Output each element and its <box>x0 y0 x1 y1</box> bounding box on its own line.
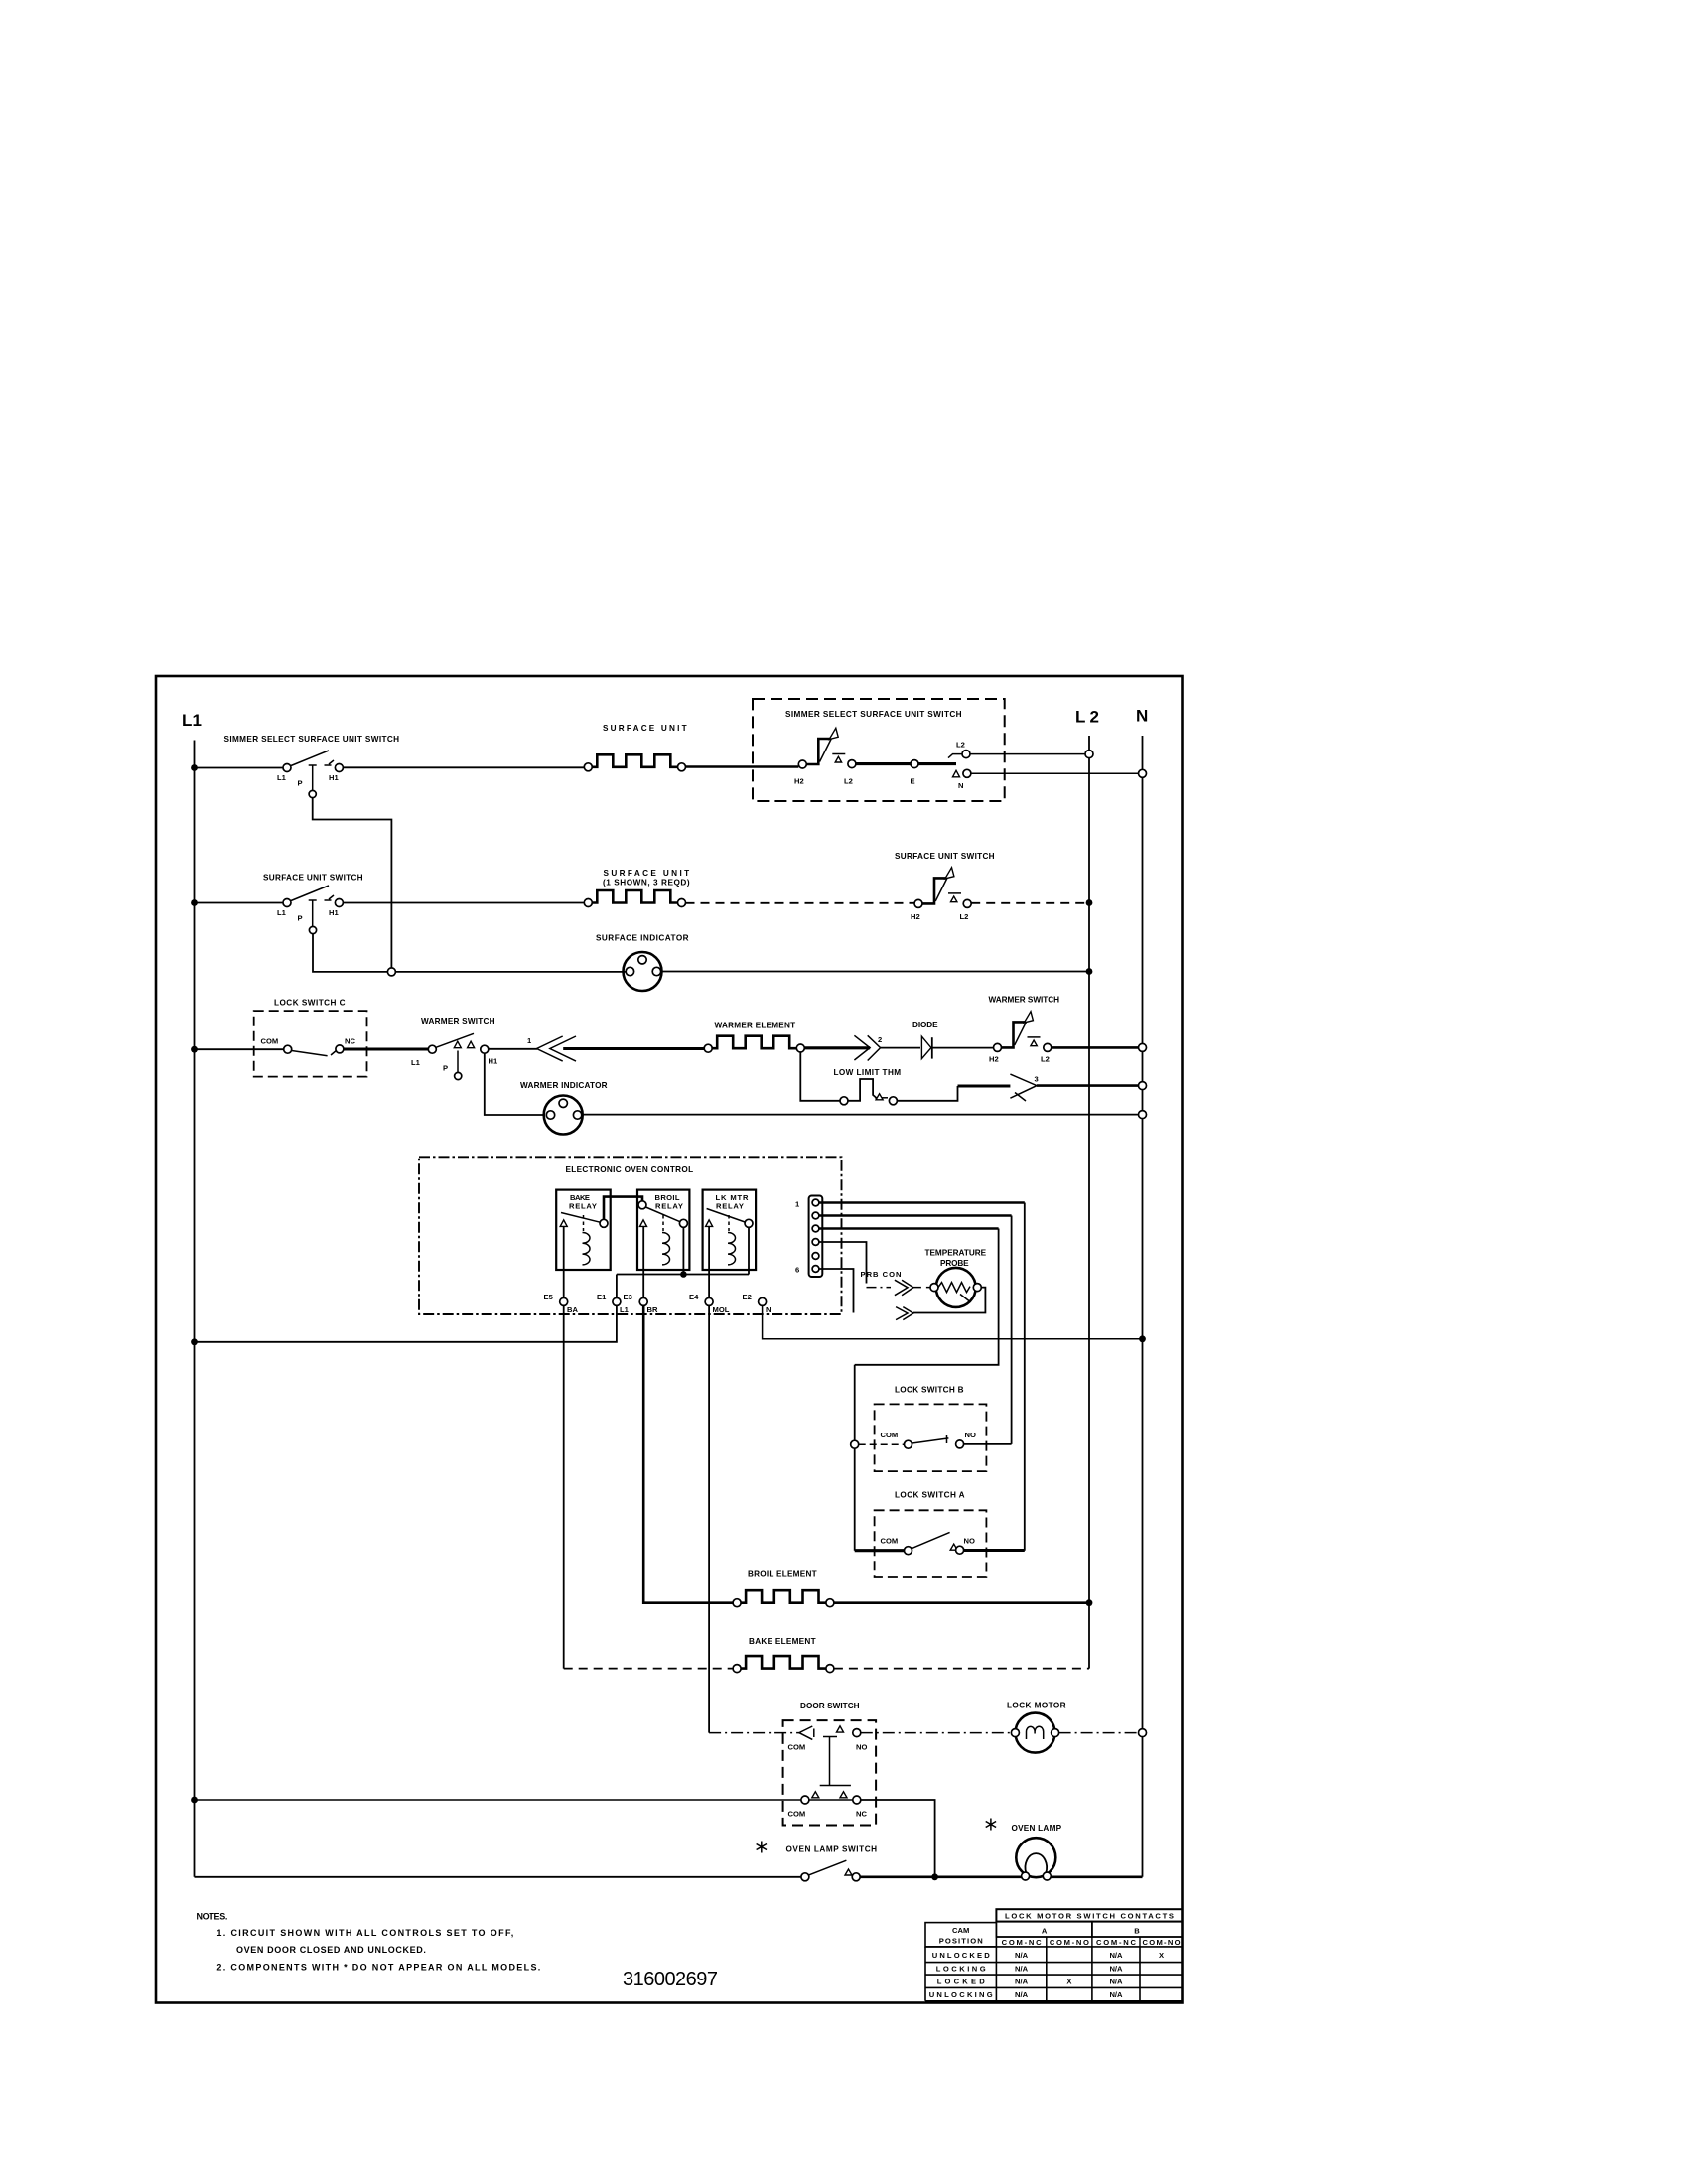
lamp oven lamp <box>1012 1824 1062 1880</box>
wire lock motor to N bus (dash-dot) <box>1059 1732 1143 1734</box>
probe connector row dash-dot <box>867 1287 892 1289</box>
wire junction to COM lock B <box>859 1443 905 1445</box>
terminal E2 <box>743 1293 772 1314</box>
node L1 label <box>182 711 204 730</box>
svg-text:LOCK MOTOR SWITCH CONTACTS: LOCK MOTOR SWITCH CONTACTS <box>1005 1912 1174 1921</box>
wire E segment <box>856 762 911 765</box>
svg-text:COM: COM <box>261 1037 279 1046</box>
wire L2 bus <box>1088 736 1090 1669</box>
svg-text:E2: E2 <box>743 1293 752 1301</box>
wire lock B left down to lock A <box>854 1448 856 1551</box>
svg-text:L 1: L 1 <box>182 711 204 730</box>
terminal E1 <box>597 1293 630 1314</box>
junction on L2 bus indicator row <box>1086 968 1093 975</box>
svg-text:L1: L1 <box>277 908 287 917</box>
wire chevron3 to N bus <box>1037 1084 1143 1087</box>
svg-text:UNLOCKING: UNLOCKING <box>929 1990 993 1999</box>
svg-text:H1: H1 <box>489 1057 498 1066</box>
wire pin1 to lock switch A NO <box>819 1203 1025 1551</box>
svg-text:P: P <box>298 779 303 788</box>
svg-text:N/A: N/A <box>1015 1990 1029 1999</box>
dashed box simmer select surface unit switch <box>753 699 1005 801</box>
svg-text:N/A: N/A <box>1015 1978 1029 1986</box>
svg-text:LOW LIMIT THM: LOW LIMIT THM <box>834 1068 902 1077</box>
junction L1 row2 <box>191 899 198 906</box>
wire H1 to chevron <box>489 1048 537 1050</box>
svg-text:N/A: N/A <box>1109 1978 1123 1986</box>
svg-text:L1: L1 <box>620 1305 630 1314</box>
svg-text:2: 2 <box>878 1035 882 1044</box>
svg-text:H1: H1 <box>329 773 339 782</box>
dashed box lock switch C <box>254 999 367 1077</box>
junction door-NC / lamp row <box>931 1873 938 1880</box>
wire E1 to L1 bus <box>195 1305 617 1341</box>
svg-text:SURFACE INDICATOR: SURFACE INDICATOR <box>596 934 689 943</box>
svg-text:P: P <box>298 914 303 923</box>
relay broil relay U2 <box>637 1190 689 1298</box>
junction L1 E1 row <box>191 1338 198 1345</box>
svg-text:COM: COM <box>881 1537 899 1546</box>
wire L2-contact to L2 bus <box>970 753 1089 755</box>
wire oven lamp switch to lamp <box>860 1876 1021 1879</box>
table lock motor switch contacts <box>925 1909 1183 2001</box>
svg-text:NC: NC <box>345 1037 355 1046</box>
wire N-contact to N bus <box>971 772 1143 774</box>
resistor surface unit (1 shown 3 reqd) <box>584 869 690 907</box>
svg-text:DIODE: DIODE <box>912 1021 938 1029</box>
svg-text:RELAY: RELAY <box>655 1201 683 1210</box>
svg-text:6: 6 <box>795 1266 799 1275</box>
wire H1 down to warmer indicator <box>485 1053 544 1115</box>
wire N bus <box>1142 736 1144 1877</box>
thermistor temperature probe <box>925 1249 987 1307</box>
wire lock A NO to pin1 vertical <box>964 1549 1025 1552</box>
svg-text:N: N <box>958 781 963 790</box>
svg-text:BAKE ELEMENT: BAKE ELEMENT <box>749 1637 816 1646</box>
svg-text:1. CIRCUIT SHOWN WITH ALL CONT: 1. CIRCUIT SHOWN WITH ALL CONTROLS SET T… <box>216 1928 514 1938</box>
svg-text:LOCK SWITCH B: LOCK SWITCH B <box>895 1386 964 1395</box>
wire chevron to probe left <box>913 1287 930 1289</box>
svg-text:SIMMER SELECT SURFACE UNIT SWI: SIMMER SELECT SURFACE UNIT SWITCH <box>785 710 962 719</box>
svg-text:L2: L2 <box>956 741 965 750</box>
wire bake element to L2 bus elbow (dashed) <box>834 1668 1089 1670</box>
switch lock switch C <box>261 1037 356 1056</box>
wire E2 to N bus <box>763 1305 1143 1338</box>
motor lock motor <box>1007 1702 1066 1753</box>
svg-text:UNLOCKED: UNLOCKED <box>932 1951 991 1960</box>
svg-text:X: X <box>1066 1978 1071 1986</box>
lamp warmer indicator <box>520 1081 608 1135</box>
wire pin3 to lock switch B COM <box>819 1229 999 1441</box>
wire E4 to door switch (dash-dot) <box>709 1305 799 1732</box>
wire chevron2 to diode <box>881 1047 920 1049</box>
connector chevrons probe return <box>896 1307 913 1320</box>
svg-text:N/A: N/A <box>1015 1965 1029 1974</box>
svg-text:WARMER INDICATOR: WARMER INDICATOR <box>520 1081 608 1090</box>
svg-text:OVEN LAMP SWITCH: OVEN LAMP SWITCH <box>786 1845 878 1854</box>
resistor warmer element <box>704 1022 796 1053</box>
svg-text:L 2: L 2 <box>1075 708 1101 727</box>
junction L1 door row <box>191 1797 198 1804</box>
svg-text:COM: COM <box>788 1810 806 1819</box>
node junction circle P-row <box>387 968 395 976</box>
svg-text:L2: L2 <box>1041 1055 1050 1064</box>
svg-text:SURFACE UNIT: SURFACE UNIT <box>603 724 687 733</box>
svg-text:CAM: CAM <box>952 1926 969 1935</box>
mechanical link door switch <box>820 1737 851 1786</box>
asterisk oven lamp switch <box>757 1842 767 1853</box>
wire chevron to warmer element <box>563 1047 704 1050</box>
svg-text:TEMPERATURE: TEMPERATURE <box>925 1249 987 1258</box>
junction N bus E2 row <box>1139 1335 1146 1342</box>
thermostat low limit thm <box>834 1068 902 1105</box>
wire pin2 to lock switch B NO <box>819 1216 1012 1444</box>
svg-text:LOCK MOTOR: LOCK MOTOR <box>1007 1702 1066 1710</box>
wire row1 to H2 <box>686 765 799 768</box>
diode <box>912 1021 938 1059</box>
svg-text:N: N <box>766 1305 771 1314</box>
svg-text:SURFACE UNIT SWITCH: SURFACE UNIT SWITCH <box>263 874 363 883</box>
switch warmer switch (left) <box>411 1017 498 1080</box>
terminal E4 <box>689 1293 730 1314</box>
node junction circle lock B left <box>851 1440 859 1448</box>
svg-text:OVEN DOOR CLOSED AND UNLOCKED.: OVEN DOOR CLOSED AND UNLOCKED. <box>236 1945 427 1955</box>
table text <box>929 1912 1181 1999</box>
svg-text:N/A: N/A <box>1109 1965 1123 1974</box>
switch door switch lower pole <box>788 1792 868 1819</box>
connector chevrons PRB CON <box>861 1270 913 1296</box>
svg-text:3: 3 <box>1035 1075 1039 1084</box>
svg-text:A: A <box>1042 1927 1048 1936</box>
junction L1 warmer row <box>191 1046 198 1053</box>
connector chevron 2 <box>854 1035 882 1061</box>
svg-text:ELECTRONIC OVEN CONTROL: ELECTRONIC OVEN CONTROL <box>566 1165 694 1174</box>
wire row2 mid <box>343 902 584 904</box>
switch line selector L2/N <box>918 741 971 791</box>
svg-text:NO: NO <box>964 1537 975 1546</box>
wire row2 left <box>195 902 284 904</box>
node E terminal <box>911 760 919 786</box>
switch door switch upper pole <box>788 1726 868 1752</box>
node circle on N bus thm row <box>1139 1082 1147 1090</box>
node junction circle warmer element out <box>796 1044 804 1052</box>
dashed box lock switch A <box>875 1490 987 1577</box>
svg-text:P: P <box>443 1064 448 1073</box>
svg-text:WARMER SWITCH: WARMER SWITCH <box>421 1017 495 1025</box>
wire E5 to bake element (dashed) <box>564 1305 733 1668</box>
svg-text:NOTES.: NOTES. <box>197 1912 229 1922</box>
asterisk oven lamp <box>986 1819 996 1831</box>
switch surface unit switch (left) <box>263 874 363 934</box>
wire broil relay armature to E1, lk mtr armature join <box>617 1227 749 1297</box>
dashed box door switch <box>783 1702 877 1826</box>
svg-text:E1: E1 <box>597 1293 607 1301</box>
svg-text:OVEN LAMP: OVEN LAMP <box>1012 1824 1062 1833</box>
wire L1 bus elbow to oven lamp switch <box>195 1876 801 1878</box>
wire probe return loop <box>913 1288 985 1313</box>
lamp surface indicator <box>596 934 689 992</box>
svg-text:L1: L1 <box>277 773 287 782</box>
connector chevron 3 <box>1010 1074 1038 1101</box>
wire diode to H2 <box>932 1047 994 1049</box>
wire row1 left <box>195 767 284 769</box>
svg-text:LOCK SWITCH C: LOCK SWITCH C <box>274 999 346 1008</box>
wire warmer switch to N bus <box>1052 1046 1143 1049</box>
wire lamp to N bus corner <box>1051 1876 1142 1879</box>
junction L1 row1 <box>191 764 198 771</box>
wire broil element to L2 bus <box>834 1601 1089 1604</box>
wire to lock switch C <box>195 1048 284 1050</box>
connector strip EOC pins <box>795 1196 822 1278</box>
svg-text:BA: BA <box>567 1305 578 1314</box>
svg-text:PRB CON: PRB CON <box>861 1270 902 1279</box>
switch lock switch B <box>881 1431 976 1448</box>
wire door NO to lock motor (dash-dot) <box>861 1732 1012 1734</box>
wire low limit to chevron 3 <box>897 1086 1010 1101</box>
wire door NC down to lamp row <box>861 1800 935 1877</box>
svg-text:N: N <box>1136 707 1150 726</box>
svg-text:316002697: 316002697 <box>623 1969 719 1990</box>
node circle on L2 bus row1 <box>1085 751 1093 758</box>
svg-text:(1 SHOWN, 3 REQD): (1 SHOWN, 3 REQD) <box>603 879 690 887</box>
svg-text:BR: BR <box>647 1305 658 1314</box>
switch simmer select (right, infinite switch) <box>794 728 856 785</box>
svg-text:2. COMPONENTS WITH * DO NOT AP: 2. COMPONENTS WITH * DO NOT APPEAR ON AL… <box>216 1963 541 1973</box>
wire pin4 to probe connector <box>819 1242 867 1284</box>
wire lock B NO to pin2 vertical <box>964 1443 1012 1445</box>
junction on L2 bus row2 <box>1086 899 1093 906</box>
svg-text:H2: H2 <box>911 912 920 921</box>
svg-text:N/A: N/A <box>1109 1990 1123 1999</box>
svg-text:N/A: N/A <box>1015 1951 1029 1960</box>
wire pin6 to probe return <box>819 1269 854 1313</box>
switch oven lamp switch <box>786 1845 878 1881</box>
wire L1 bus <box>194 741 196 1877</box>
svg-text:NC: NC <box>856 1810 867 1819</box>
svg-text:DOOR SWITCH: DOOR SWITCH <box>800 1702 860 1710</box>
wire warmer indicator to N bus <box>582 1114 1143 1116</box>
svg-text:NO: NO <box>965 1431 976 1439</box>
resistor broil element <box>733 1570 834 1607</box>
svg-text:COM: COM <box>788 1743 806 1752</box>
svg-text:LOCK SWITCH A: LOCK SWITCH A <box>895 1490 965 1499</box>
wire NC to warmer switch <box>344 1047 428 1050</box>
svg-text:WARMER ELEMENT: WARMER ELEMENT <box>715 1022 796 1030</box>
svg-text:B: B <box>1134 1927 1140 1936</box>
wire L1 bus to door COM lower <box>195 1799 801 1801</box>
wire bake relay to broil relay top <box>604 1197 642 1220</box>
wire indicator to L2 bus <box>661 971 1089 973</box>
node circle on N bus lock motor row <box>1139 1729 1147 1737</box>
relay bake relay U1 <box>556 1190 611 1298</box>
svg-text:H2: H2 <box>989 1055 999 1064</box>
svg-text:H1: H1 <box>329 908 339 917</box>
svg-text:WARMER SWITCH: WARMER SWITCH <box>989 996 1060 1005</box>
switch warmer switch (right, infinite switch) <box>989 996 1060 1064</box>
node N label <box>1136 707 1150 726</box>
wire row2 dashed to H2 <box>686 902 915 904</box>
svg-text:L2: L2 <box>960 912 969 921</box>
svg-text:SURFACE UNIT: SURFACE UNIT <box>604 869 690 878</box>
resistor bake element <box>733 1637 834 1673</box>
node circle on N bus warmer row <box>1139 1043 1147 1051</box>
svg-text:E3: E3 <box>624 1293 632 1301</box>
switch lock switch A <box>855 1532 975 1554</box>
svg-text:E4: E4 <box>689 1293 699 1301</box>
svg-text:SIMMER SELECT SURFACE UNIT SWI: SIMMER SELECT SURFACE UNIT SWITCH <box>224 735 400 744</box>
wire E3 to broil element <box>643 1305 733 1602</box>
node circle on N bus indicator row <box>1139 1111 1147 1119</box>
wire element junction down to low limit <box>800 1052 840 1101</box>
notes text <box>197 1912 542 1973</box>
svg-text:RELAY: RELAY <box>716 1201 744 1210</box>
terminal E5 <box>544 1293 579 1314</box>
node circle on N bus row1 <box>1139 769 1147 777</box>
connector chevron 1 (left) <box>527 1036 576 1061</box>
node L2 label <box>1075 708 1101 727</box>
switch simmer select surface unit switch (left) <box>224 735 400 798</box>
svg-text:E: E <box>911 777 915 786</box>
svg-text:L1: L1 <box>411 1058 421 1067</box>
svg-text:L2: L2 <box>844 777 853 786</box>
dashed box lock switch B <box>875 1386 987 1472</box>
junction L2 bus broil row <box>1086 1599 1093 1606</box>
wire to surface indicator <box>395 971 626 973</box>
svg-text:SURFACE UNIT SWITCH: SURFACE UNIT SWITCH <box>895 852 995 861</box>
wire row1 mid <box>343 766 584 768</box>
svg-text:COM: COM <box>881 1431 899 1439</box>
wire row2 dashed to L2 bus <box>971 902 1089 904</box>
border frame <box>156 676 1183 2003</box>
svg-text:POSITION: POSITION <box>939 1937 983 1946</box>
relay lk mtr relay U3 <box>703 1190 757 1298</box>
wire P legs to indicator row <box>313 798 392 972</box>
resistor surface unit (top) <box>584 724 687 771</box>
svg-text:X: X <box>1159 1951 1164 1960</box>
svg-text:NO: NO <box>856 1743 867 1752</box>
svg-text:RELAY: RELAY <box>569 1201 597 1210</box>
svg-text:H2: H2 <box>794 777 804 786</box>
svg-text:BROIL ELEMENT: BROIL ELEMENT <box>748 1570 817 1579</box>
switch surface unit switch (right, infinite switch) <box>895 852 995 921</box>
svg-text:E5: E5 <box>544 1293 554 1301</box>
dashed box electronic oven control <box>419 1157 842 1314</box>
svg-text:MOL: MOL <box>713 1305 730 1314</box>
svg-text:N/A: N/A <box>1109 1951 1123 1960</box>
wire to chevron 2 <box>804 1046 870 1049</box>
terminal E3 <box>624 1293 658 1314</box>
part number 316002697 <box>623 1969 719 1990</box>
